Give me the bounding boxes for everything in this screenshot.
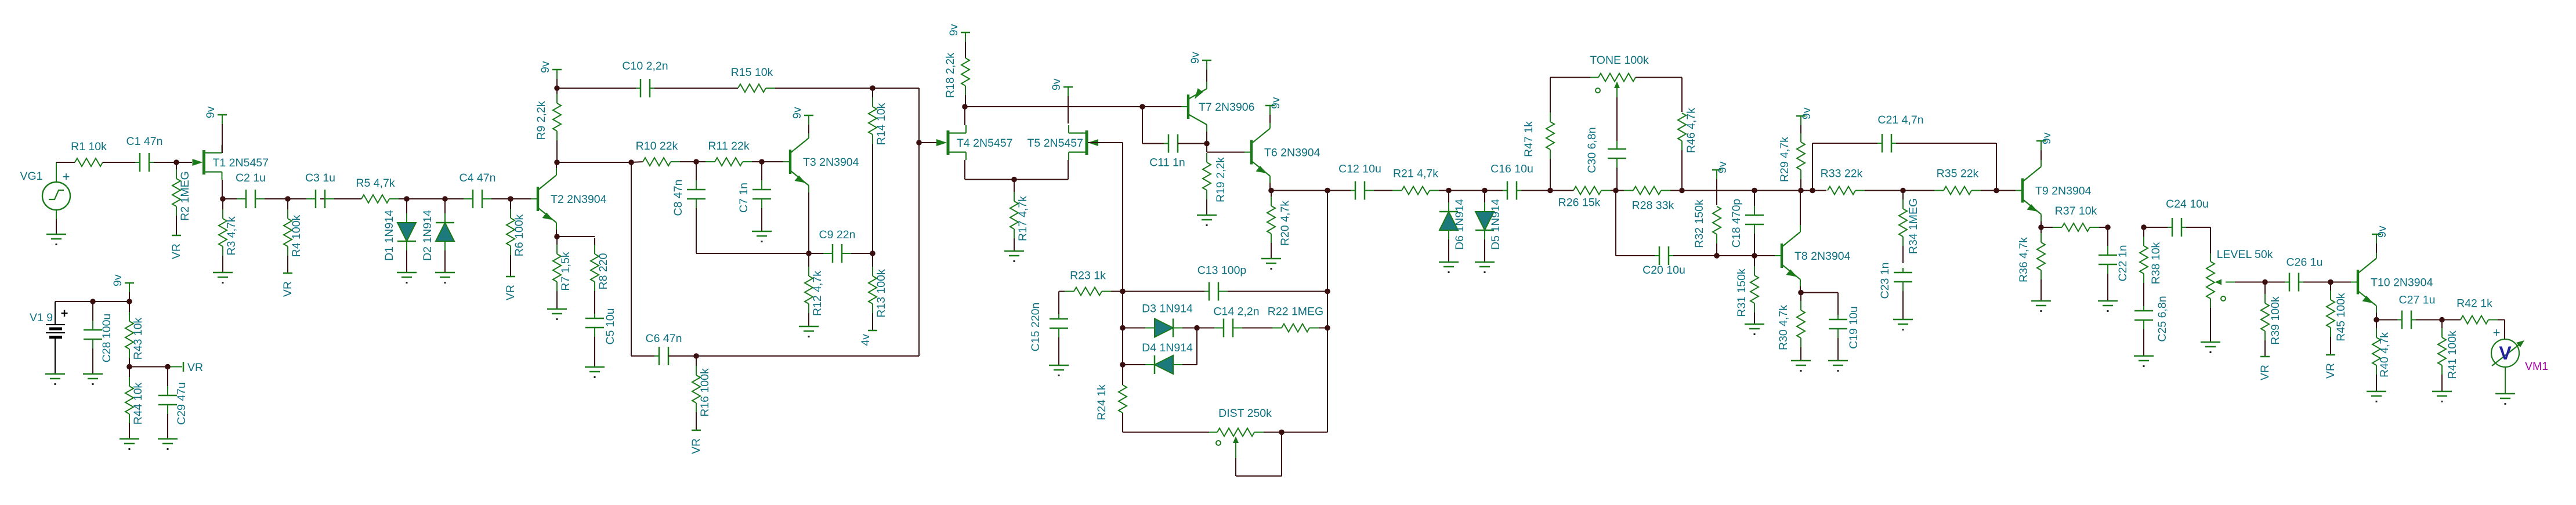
svg-text:V1 9: V1 9	[30, 311, 53, 324]
wire T4 drain	[964, 107, 965, 125]
resistor R28	[1617, 187, 1681, 212]
svg-text:VR: VR	[690, 438, 703, 454]
svg-text:C23 1n: C23 1n	[1879, 263, 1891, 299]
supply 9v at T5 drain	[1050, 78, 1073, 123]
node T4 drain	[962, 104, 968, 110]
node C7 top	[759, 159, 765, 165]
wire D5 to C16	[1449, 190, 1503, 191]
node R4 top	[285, 196, 291, 202]
svg-text:D4 1N914: D4 1N914	[1142, 341, 1193, 354]
wire C6 to R16 node	[668, 355, 919, 357]
supply 9v at R29	[1796, 107, 1813, 133]
capacitor C18	[1730, 191, 1764, 255]
wire T6 emitter to C12	[1271, 190, 1351, 191]
svg-text:T6 2N3904: T6 2N3904	[1264, 147, 1320, 159]
svg-text:T7 2N3906: T7 2N3906	[1199, 101, 1254, 114]
svg-text:R42 1k: R42 1k	[2456, 297, 2492, 310]
svg-text:C19 10u: C19 10u	[1847, 306, 1860, 349]
resistor R4	[284, 200, 303, 273]
node tone mid	[1613, 188, 1619, 194]
diode D1	[383, 200, 416, 273]
node D5	[1482, 188, 1488, 194]
resistor R44	[125, 368, 144, 439]
svg-text:R29 4,7k: R29 4,7k	[1778, 137, 1791, 182]
transistor T5	[1027, 125, 1098, 160]
resistor R36	[2017, 228, 2045, 301]
svg-text:R33 22k: R33 22k	[1821, 168, 1863, 180]
svg-text:R5 4,7k: R5 4,7k	[356, 177, 395, 190]
transistor T4	[936, 125, 1012, 160]
resistor R37	[2042, 205, 2107, 231]
svg-text:C22 1n: C22 1n	[2116, 245, 2129, 282]
wire T1 source node to T2 base	[222, 198, 536, 199]
svg-text:R46 4,7k: R46 4,7k	[1685, 108, 1698, 153]
node C11 tap	[1139, 104, 1145, 110]
wire C24 to LEVEL	[2186, 227, 2210, 261]
node R3 top	[220, 196, 226, 202]
capacitor C10	[622, 60, 668, 97]
resistor R33	[1821, 168, 1902, 195]
resistor R8	[591, 238, 610, 314]
svg-text:D6 1N914: D6 1N914	[1453, 199, 1466, 250]
svg-text:R22 1MEG: R22 1MEG	[1268, 306, 1323, 318]
supply 9v at T1	[204, 106, 227, 153]
capacitor C2	[236, 172, 266, 208]
wire T1 drain to 9v	[222, 133, 223, 145]
capacitor C16	[1490, 163, 1533, 200]
svg-text:R7 1,5k: R7 1,5k	[559, 252, 572, 290]
node C13 right	[1325, 289, 1330, 295]
capacitor C21	[1877, 114, 1924, 152]
svg-text:R41 100k: R41 100k	[2446, 330, 2459, 379]
wire tone left riser	[1550, 78, 1598, 95]
wire T4 source	[964, 160, 965, 180]
svg-text:9v: 9v	[1800, 107, 1813, 119]
svg-text:R16 100k: R16 100k	[699, 368, 711, 417]
node C29 top	[165, 364, 171, 370]
wire R1 to C1	[103, 162, 135, 163]
svg-text:C11 1n: C11 1n	[1149, 157, 1185, 169]
transistor T3	[783, 131, 859, 192]
wire T2 collector run	[557, 162, 631, 163]
node D3 D4 join	[1194, 325, 1200, 331]
resistor R47	[1522, 94, 1554, 190]
svg-text:R38 10k: R38 10k	[2150, 242, 2162, 284]
capacitor C26	[2285, 256, 2322, 292]
node R14 top	[870, 85, 875, 91]
svg-text:C2 1u: C2 1u	[236, 172, 266, 184]
ground C25	[2134, 356, 2154, 367]
wire drain rail	[965, 106, 1186, 107]
supply VR at R6	[504, 277, 517, 300]
svg-text:R13 100k: R13 100k	[875, 269, 888, 318]
wire C11 to T7 collector node	[1178, 143, 1206, 144]
wire wiper to C26	[2265, 282, 2285, 283]
node R23	[1120, 289, 1126, 295]
resistor R42	[2456, 297, 2505, 324]
node R43 top	[126, 299, 132, 304]
ground D5	[1475, 262, 1495, 273]
potentiometer LEVEL	[2206, 248, 2273, 342]
diode D4	[1124, 341, 1196, 374]
svg-text:D1 1N914: D1 1N914	[383, 210, 396, 261]
resistor R45	[2327, 283, 2347, 355]
svg-text:VR: VR	[2324, 363, 2337, 379]
ground D1	[397, 273, 417, 284]
supply VR terminal	[183, 361, 203, 374]
svg-text:R47 1k: R47 1k	[1522, 121, 1535, 157]
diode D2	[421, 200, 454, 273]
svg-text:T5 2N5457: T5 2N5457	[1027, 137, 1083, 150]
supply 9v at R32	[1712, 161, 1729, 205]
ground C28	[83, 374, 103, 385]
wire T9 collector	[2040, 142, 2042, 160]
capacitor C25	[2134, 296, 2169, 356]
svg-text:R40 4,7k: R40 4,7k	[2378, 332, 2391, 377]
node T2 emitter	[554, 234, 560, 239]
wire C1 to T1 gate	[154, 162, 192, 163]
capacitor C12	[1338, 163, 1381, 200]
node R41 top	[2439, 317, 2445, 323]
wire R42 to VM1	[2504, 320, 2505, 340]
wire T9 emitter	[2040, 221, 2042, 227]
svg-text:R45 100k: R45 100k	[2335, 293, 2347, 341]
svg-text:D3 1N914: D3 1N914	[1142, 303, 1193, 315]
node dist feedback	[1325, 188, 1330, 194]
battery V1	[30, 301, 68, 374]
ground R20	[1261, 259, 1281, 270]
node D6	[1446, 188, 1452, 194]
capacitor C15	[1029, 303, 1068, 365]
resistor R1	[71, 140, 135, 166]
resistor R14	[869, 89, 888, 252]
ground C22	[2098, 301, 2118, 312]
node R9 top	[554, 85, 560, 91]
resistor R10	[636, 140, 695, 166]
svg-text:9v: 9v	[947, 24, 960, 36]
resistor R26	[1558, 187, 1615, 209]
resistor R15	[731, 66, 871, 92]
svg-text:C24 10u: C24 10u	[2166, 198, 2209, 210]
svg-text:C26 1u: C26 1u	[2286, 256, 2323, 269]
node R14 bottom	[870, 250, 875, 256]
capacitor C30	[1586, 127, 1626, 190]
voltmeter VM1	[2491, 325, 2548, 373]
node R32 bottom	[1714, 253, 1720, 259]
ground R7	[547, 309, 567, 320]
resistor R39	[2261, 283, 2282, 357]
ground D6	[1439, 262, 1459, 273]
resistor R2	[172, 164, 191, 235]
svg-text:C28 100u: C28 100u	[100, 314, 113, 363]
supply 9v at T3	[791, 107, 813, 133]
supply 9v at T9	[2036, 132, 2053, 160]
wire VG1 to R1	[56, 162, 75, 163]
node T3 emitter	[806, 250, 812, 256]
node VR mid	[126, 364, 132, 370]
potentiometer DIST	[1209, 407, 1280, 476]
svg-text:C14 2,2n: C14 2,2n	[1213, 306, 1259, 318]
node D4 left	[1120, 362, 1126, 368]
svg-text:R1 10k: R1 10k	[71, 140, 107, 153]
wire T5 gate	[1088, 143, 1123, 290]
resistor R40	[2372, 321, 2391, 391]
wire R24 to DIST	[1123, 413, 1217, 433]
node tone left	[1547, 188, 1553, 194]
capacitor C27	[2397, 294, 2435, 329]
resistor R46	[1678, 108, 1698, 190]
resistor R16	[692, 357, 711, 430]
svg-text:9v: 9v	[539, 61, 552, 73]
supply VR at R39	[2259, 357, 2271, 380]
resistor R6	[506, 200, 526, 277]
wire T2 emitter run	[557, 236, 595, 237]
svg-text:R4 100k: R4 100k	[290, 215, 303, 257]
node D3 left	[1120, 325, 1126, 331]
svg-text:T9 2N3904: T9 2N3904	[2035, 185, 2092, 198]
svg-text:C15 220n: C15 220n	[1029, 303, 1042, 352]
svg-text:C25 6,8n: C25 6,8n	[2156, 296, 2169, 341]
svg-text:C3 1u: C3 1u	[305, 172, 335, 184]
svg-text:R31 150k: R31 150k	[1735, 268, 1748, 317]
svg-text:R37 10k: R37 10k	[2055, 205, 2097, 217]
svg-text:C4 47n: C4 47n	[460, 172, 496, 184]
wire T2 collector	[556, 164, 557, 168]
wire T8 collector	[1800, 191, 1801, 225]
node T8 emitter	[1798, 290, 1804, 296]
svg-text:VG1: VG1	[20, 170, 42, 183]
wire D4 up	[1196, 329, 1197, 365]
wire sources join	[965, 179, 1068, 180]
ground R30	[1791, 361, 1811, 372]
node C8 top	[693, 159, 699, 165]
transistor T10	[2351, 252, 2433, 313]
ground D2	[435, 273, 455, 284]
svg-text:R23 1k: R23 1k	[1070, 270, 1106, 282]
svg-text:T10 2N3904: T10 2N3904	[2371, 277, 2433, 289]
capacitor C28	[84, 303, 113, 374]
diode D3	[1124, 303, 1196, 337]
svg-text:C27 1u: C27 1u	[2399, 294, 2436, 307]
wire DIST to riser	[1282, 191, 1327, 433]
wire T5 source	[1068, 160, 1069, 180]
capacitor C5	[585, 308, 617, 367]
wire C13 run	[1123, 291, 1327, 292]
svg-text:9v: 9v	[204, 106, 217, 118]
capacitor C19	[1829, 306, 1860, 361]
svg-text:VR: VR	[170, 244, 183, 259]
capacitor C14	[1198, 306, 1260, 337]
node T9 base	[1993, 188, 1999, 194]
svg-text:VR: VR	[504, 285, 517, 300]
node LEVEL wiper	[2262, 279, 2268, 285]
resistor R30	[1777, 293, 1805, 361]
node T9 emitter	[2038, 224, 2044, 230]
svg-text:T2 2N3904: T2 2N3904	[551, 193, 607, 206]
wire to T9 base	[1996, 190, 2020, 191]
resistor R9	[535, 89, 561, 161]
svg-text:VR: VR	[187, 361, 203, 374]
ground C7	[752, 231, 772, 242]
supply 9v at T7	[1189, 52, 1211, 82]
svg-text:9v: 9v	[2040, 132, 2053, 144]
svg-text:9v: 9v	[1189, 52, 1202, 64]
svg-text:R30 4,7k: R30 4,7k	[1777, 305, 1790, 350]
svg-text:T8 2N3904: T8 2N3904	[1794, 250, 1851, 263]
svg-text:R20 4,7k: R20 4,7k	[1279, 201, 1291, 246]
transistor T7	[1181, 82, 1254, 132]
wire C20 to T8 base	[1673, 255, 1777, 256]
node D2	[442, 196, 448, 202]
transistor T8	[1775, 225, 1851, 286]
node C28 top	[90, 299, 96, 304]
svg-text:9v: 9v	[791, 107, 804, 119]
resistor R38	[2140, 228, 2162, 306]
ground C15	[1049, 365, 1069, 376]
ground R3	[213, 273, 233, 284]
ground C29	[158, 439, 178, 450]
svg-text:C8 47n: C8 47n	[672, 180, 685, 216]
ground C19	[1828, 361, 1848, 372]
capacitor C6	[646, 332, 682, 365]
capacitor C13	[1197, 264, 1247, 301]
wire C27 to R41	[2416, 319, 2461, 321]
svg-text:C20 10u: C20 10u	[1642, 264, 1685, 277]
wire C10 to R15	[654, 88, 738, 89]
node T10 emitter	[2374, 317, 2379, 323]
capacitor C22	[2099, 228, 2129, 301]
svg-text:C1 47n: C1 47n	[126, 135, 163, 148]
svg-text:R19 2,2k: R19 2,2k	[1214, 157, 1227, 202]
svg-text:4v: 4v	[859, 334, 872, 346]
ground R17	[1004, 251, 1024, 262]
wire VR rail	[129, 366, 182, 368]
wire bottom loop	[696, 253, 873, 254]
supply VR at R2	[170, 235, 183, 259]
ground R19	[1197, 215, 1217, 226]
ground C5	[585, 367, 605, 378]
wire tone right riser	[1636, 78, 1682, 112]
capacitor C20	[1642, 246, 1685, 277]
capacitor C7	[737, 163, 771, 231]
svg-text:R32 150k: R32 150k	[1693, 199, 1706, 248]
node C21 tap	[1810, 188, 1815, 194]
wire T2 emitter	[556, 230, 557, 235]
svg-text:C5 10u: C5 10u	[604, 308, 617, 345]
capacitor C1	[126, 135, 163, 172]
node T8 collector	[1798, 188, 1804, 194]
svg-text:C9 22n: C9 22n	[819, 228, 856, 241]
wire T10 emitter run	[2376, 319, 2397, 321]
svg-text:9v: 9v	[2376, 226, 2389, 238]
svg-text:R39 100k: R39 100k	[2269, 296, 2282, 345]
wire R38 node to C24	[2144, 227, 2168, 228]
svg-text:R3 4,7k: R3 4,7k	[225, 216, 238, 255]
diode D6	[1439, 191, 1466, 262]
wire C16 to tone	[1521, 190, 1573, 191]
resistor R13	[869, 255, 888, 330]
svg-text:TONE 100k: TONE 100k	[1590, 54, 1649, 67]
wire C6 drop	[631, 162, 654, 356]
wire T6 base jog	[1207, 144, 1250, 152]
potentiometer TONE	[1590, 54, 1649, 141]
node tone right	[1679, 188, 1685, 194]
ground C23	[1893, 319, 1913, 330]
supply 9v at R18	[947, 24, 970, 58]
wire T1 source	[222, 180, 223, 199]
supply 4v at R13	[859, 330, 877, 346]
ground VM1	[2495, 367, 2515, 405]
svg-text:9v: 9v	[1269, 97, 1282, 109]
svg-text:R35 22k: R35 22k	[1937, 168, 1979, 180]
svg-text:9v: 9v	[111, 274, 124, 286]
svg-text:R36 4,7k: R36 4,7k	[2017, 237, 2030, 282]
capacitor C4	[460, 172, 496, 208]
supply 9v at R43	[111, 274, 134, 300]
wire R11 to T3 base	[762, 161, 788, 162]
wire C21 riser	[1812, 143, 1877, 191]
svg-text:R15 10k: R15 10k	[731, 66, 773, 79]
node R22 right	[1325, 325, 1330, 331]
svg-text:9v: 9v	[1716, 161, 1729, 173]
svg-text:+: +	[61, 306, 68, 321]
svg-text:C7 1n: C7 1n	[737, 183, 750, 213]
capacitor C11	[1149, 135, 1187, 169]
svg-text:VR: VR	[2259, 365, 2271, 380]
svg-text:DIST 250k: DIST 250k	[1218, 407, 1272, 420]
svg-text:R8 220: R8 220	[597, 253, 610, 289]
svg-text:VM1: VM1	[2525, 360, 2548, 373]
svg-text:R28 33k: R28 33k	[1632, 199, 1674, 212]
svg-text:R21 4,7k: R21 4,7k	[1393, 168, 1438, 180]
wire T10 collector	[2376, 235, 2377, 252]
svg-text:R9 2,2k: R9 2,2k	[535, 101, 548, 140]
svg-text:9v: 9v	[1050, 78, 1063, 90]
svg-text:R44 10k: R44 10k	[132, 382, 144, 424]
svg-text:R34 1MEG: R34 1MEG	[1907, 198, 1920, 254]
resistor R19	[1203, 153, 1227, 215]
wire C6 tap to R10	[631, 162, 643, 162]
ground LEVEL	[2201, 342, 2220, 353]
supply 9v at R9	[539, 61, 562, 87]
node T1 gate	[173, 159, 179, 165]
node C18 top	[1752, 188, 1757, 194]
wire T6 emitter	[1269, 183, 1271, 190]
svg-text:C10 2,2n: C10 2,2n	[622, 60, 668, 72]
supply 9v at T10	[2372, 226, 2389, 253]
resistor R43	[125, 303, 144, 365]
ground R31	[1745, 324, 1764, 335]
node T8 base	[1752, 253, 1757, 259]
resistor R22	[1242, 306, 1326, 332]
resistor R11	[697, 140, 761, 166]
ground R44	[120, 439, 139, 450]
node R17 top	[1011, 177, 1017, 183]
node D1	[404, 196, 410, 202]
svg-text:R11 22k: R11 22k	[708, 140, 749, 152]
supply VR at R16	[690, 430, 703, 454]
capacitor C23	[1879, 263, 1912, 319]
ground V1	[45, 374, 65, 385]
node R38 top	[2141, 224, 2147, 230]
supply VR at R45	[2324, 355, 2337, 379]
svg-text:C6 47n: C6 47n	[646, 332, 682, 345]
resistor R20	[1267, 191, 1291, 259]
svg-text:C30 6,8n: C30 6,8n	[1586, 127, 1598, 173]
ground R36	[2031, 301, 2051, 312]
svg-text:C29 47u: C29 47u	[175, 382, 188, 425]
svg-text:R24 1k: R24 1k	[1095, 384, 1108, 420]
